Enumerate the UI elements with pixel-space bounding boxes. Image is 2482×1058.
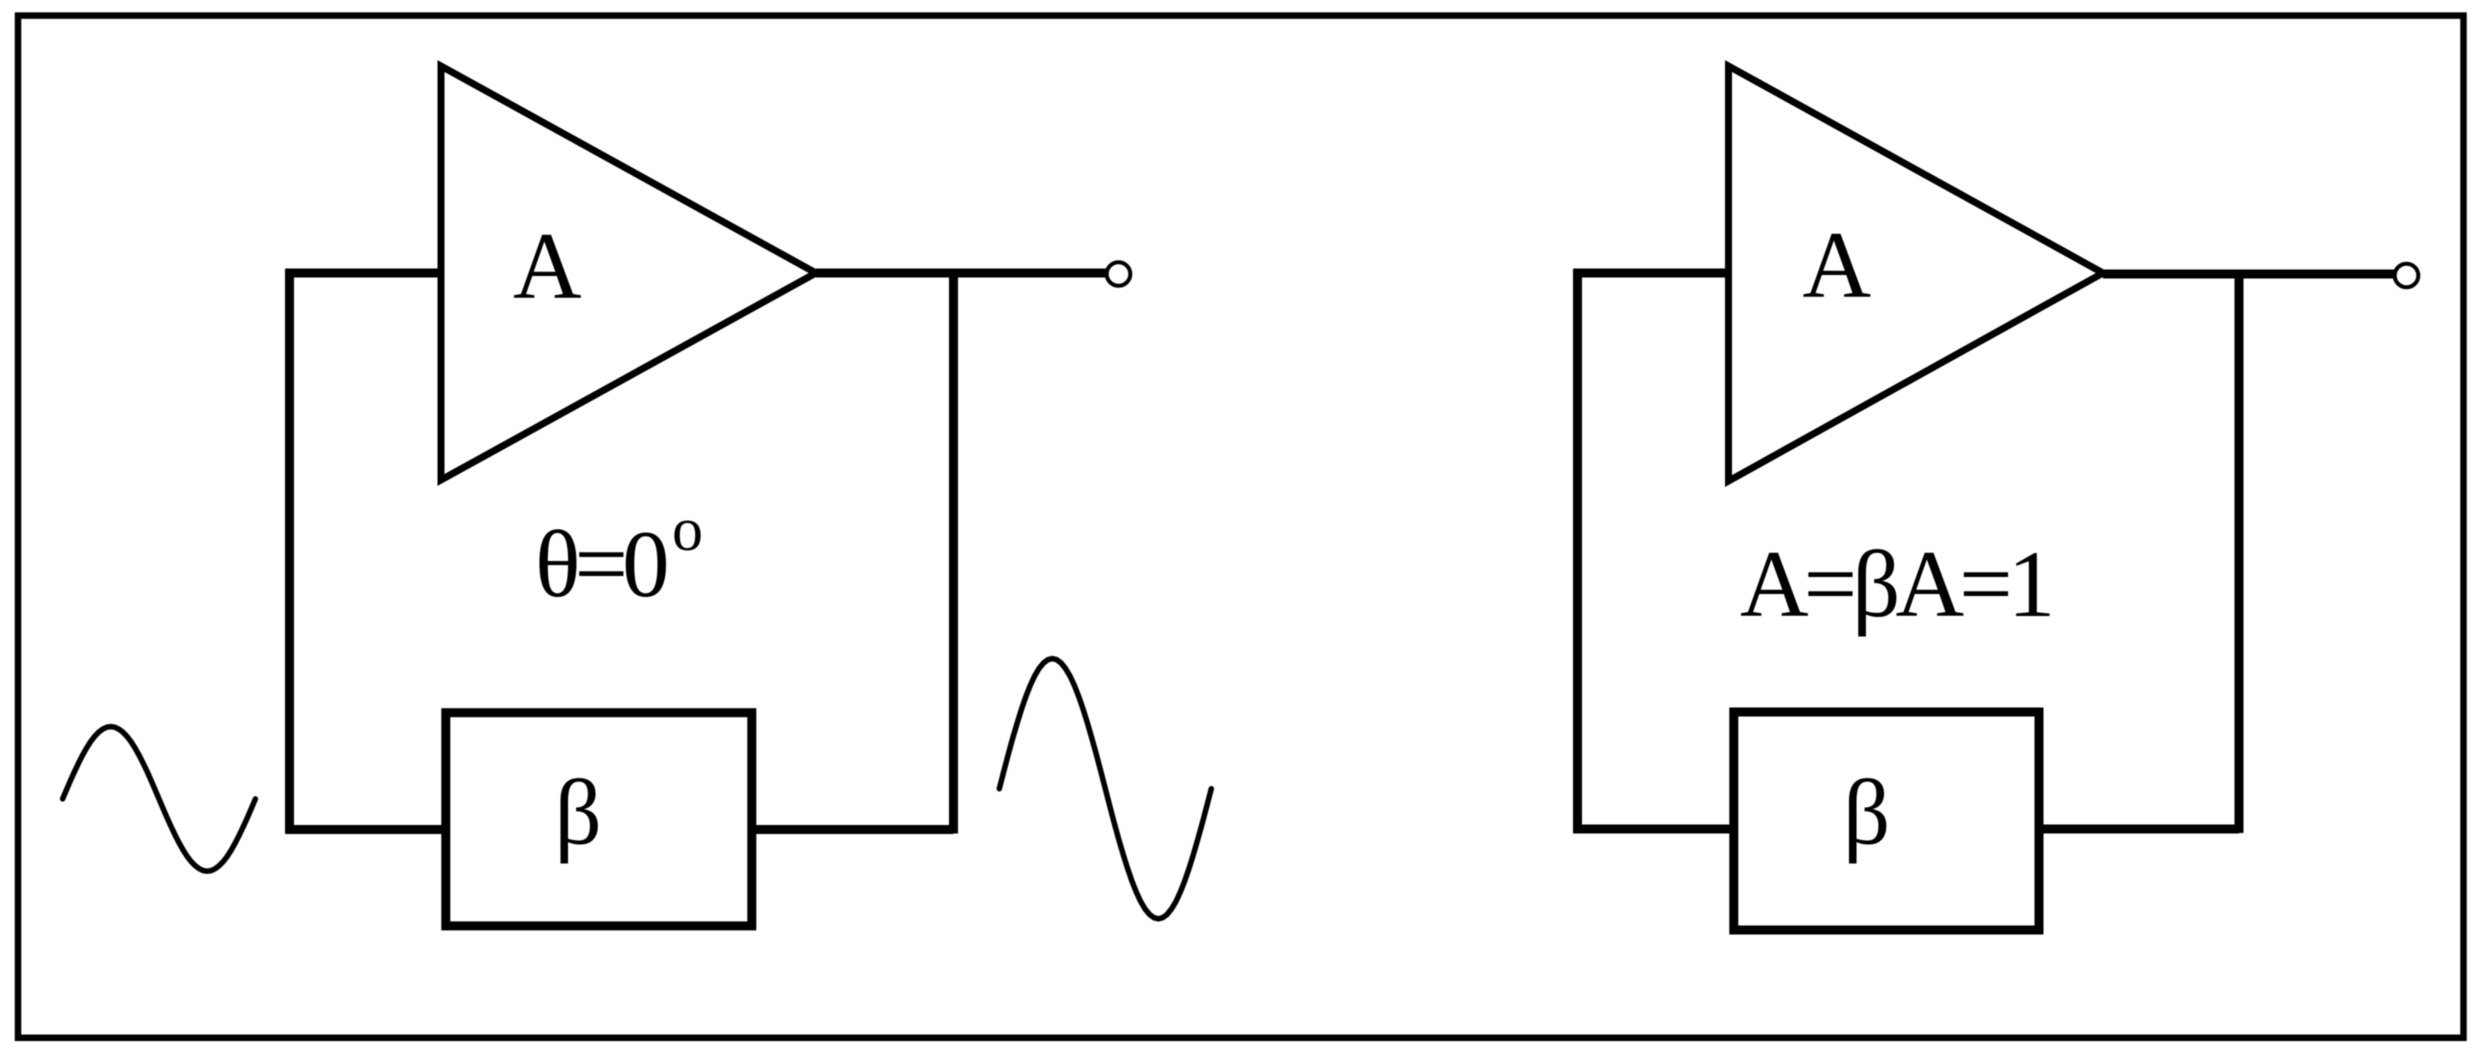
wire: left feedback vertical (left circuit): [285, 269, 294, 834]
amplifier A2 triangle (right): [1729, 66, 2104, 481]
svg-text:A: A: [1803, 212, 1872, 318]
feedback network block B2 (right): [1734, 712, 2039, 930]
amplifier A1 triangle (left): [441, 66, 816, 480]
output terminal node (left): [1107, 262, 1131, 286]
svg-text:β: β: [555, 762, 602, 865]
input waveform sine (left): [63, 727, 256, 872]
wire: input horizontal (right circuit): [1574, 269, 1729, 278]
feedback network block B1 (left): [446, 713, 752, 926]
wire: input horizontal (left circuit): [286, 269, 442, 278]
wire: output tap vertical (left circuit): [949, 273, 958, 834]
output terminal node (right): [2395, 264, 2419, 288]
svg-text:A: A: [513, 213, 582, 319]
amplified waveform sine (middle): [999, 659, 1211, 919]
svg-text:o: o: [672, 496, 703, 564]
svg-text:A=βA=1: A=βA=1: [1740, 531, 2050, 637]
wire: output (right circuit): [2103, 270, 2394, 279]
wire: output (left circuit): [816, 269, 1106, 278]
wire: bottom feedback (right circuit): [1574, 825, 2240, 834]
wire: left feedback vertical (right circuit): [1573, 269, 1582, 833]
wire: bottom feedback (left circuit): [286, 825, 954, 834]
svg-text:β: β: [1843, 762, 1890, 865]
wire: output tap vertical (right circuit): [2235, 274, 2244, 833]
svg-text:θ=0: θ=0: [535, 511, 666, 617]
